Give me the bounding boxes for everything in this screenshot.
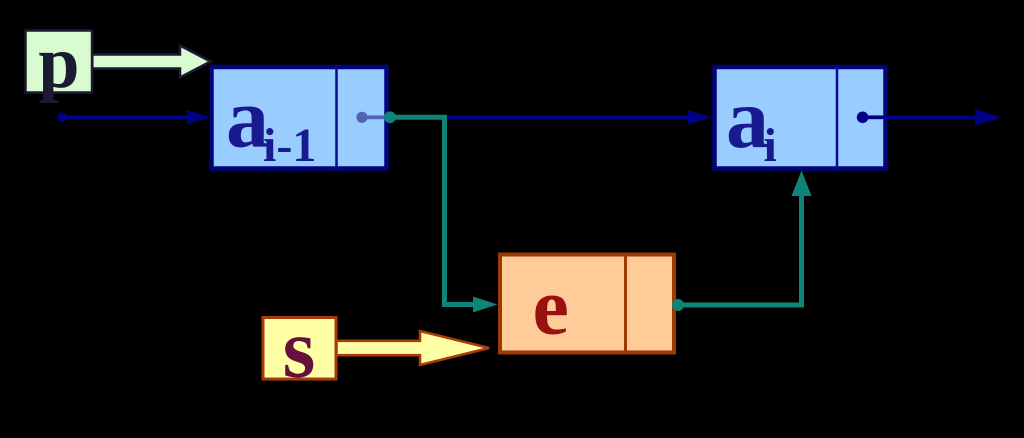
- box s: [263, 318, 336, 380]
- label a_i-1: [226, 70, 316, 173]
- node e box: [500, 253, 674, 355]
- wire list-in: [57, 110, 210, 124]
- svg-text:p: p: [38, 22, 79, 104]
- label p: [38, 22, 79, 104]
- node a_i-1 box: [212, 65, 387, 170]
- label s: [283, 303, 316, 396]
- old pointer stub in a_i-1: [356, 112, 390, 123]
- node a_i box: [715, 65, 886, 170]
- wire old link a_i-1 to a_i: [388, 110, 712, 124]
- svg-text:e: e: [533, 261, 569, 352]
- label a_i: [726, 70, 777, 172]
- wire new link e to a_i: [672, 171, 812, 312]
- label e: [533, 261, 569, 352]
- wire list-out from a_i: [857, 109, 1002, 125]
- arrow p to node a_i-1: [92, 46, 210, 78]
- svg-text:i-1: i-1: [263, 119, 316, 172]
- box p: [26, 31, 93, 93]
- svg-text:i: i: [764, 119, 777, 172]
- arrow s to node e: [337, 331, 490, 365]
- svg-text:s: s: [283, 303, 316, 396]
- wire new link a_i-1 to e: [384, 111, 497, 312]
